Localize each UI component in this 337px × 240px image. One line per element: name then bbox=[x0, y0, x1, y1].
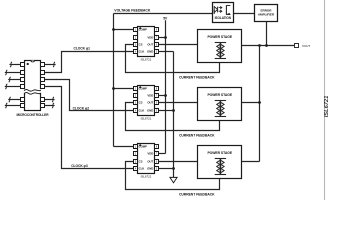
junction voltage feedback / U3 COMP bbox=[112, 87, 115, 90]
svg-text:ISOLATION: ISOLATION bbox=[215, 16, 232, 20]
isolator U3 pin 2 box bbox=[134, 94, 138, 98]
wire U3 GND to ground bus bbox=[159, 110, 174, 112]
svg-text:CLOCK φ3: CLOCK φ3 bbox=[71, 164, 88, 168]
isolator U4 pin 3 box bbox=[134, 160, 138, 164]
wire COMP branch U3 bbox=[114, 88, 134, 90]
svg-text:COMP: COMP bbox=[139, 87, 147, 91]
svg-text:GND: GND bbox=[147, 50, 153, 54]
microcontroller left pin 6 with wire and break mark bbox=[5, 103, 25, 108]
transformer T1 inside power stage bbox=[215, 43, 226, 59]
svg-text:CS: CS bbox=[139, 43, 143, 47]
svg-text:POWER STAGE: POWER STAGE bbox=[207, 93, 232, 97]
svg-text:OUT: OUT bbox=[147, 101, 153, 105]
microcontroller left pin 3 with wire and break mark bbox=[8, 77, 24, 82]
isolator U2 pin 1 box bbox=[134, 28, 138, 32]
wire CLOCK phi1 from microcontroller to U2 CLK bbox=[45, 52, 134, 73]
wire COMP branch U2 bbox=[114, 29, 134, 31]
junction voltage feedback / U2 COMP bbox=[112, 28, 115, 31]
isolator U4 ISL6721 body bbox=[138, 144, 155, 174]
microcontroller right pin box 4 bbox=[41, 85, 45, 89]
microcontroller right pin box 1 bbox=[41, 63, 45, 67]
svg-text:ERROR: ERROR bbox=[261, 8, 273, 12]
power stage PS1 box bbox=[198, 30, 242, 63]
isolator U2 pin 8 box bbox=[155, 28, 159, 32]
isolator U4 pin 7 box bbox=[155, 152, 159, 156]
svg-text:OUT: OUT bbox=[147, 43, 153, 47]
junction output bus / VOUT line bbox=[258, 44, 261, 47]
microcontroller U1 body bbox=[24, 61, 42, 111]
wire U4 VDD to 5V bus bbox=[159, 153, 166, 155]
isolator U3 pin 7 box bbox=[155, 94, 159, 98]
isolation block box bbox=[213, 3, 234, 23]
svg-text:CS: CS bbox=[139, 101, 143, 105]
label ERROR AMPLIFIER bbox=[258, 8, 275, 16]
svg-text:CURRENT FEEDBACK: CURRENT FEEDBACK bbox=[179, 192, 215, 196]
wire COMP branch U4 bbox=[114, 146, 134, 148]
junction ground / U3 GND bbox=[172, 109, 175, 112]
wire U2 CS current feedback bbox=[126, 45, 220, 73]
isolator U2 pin 6 box bbox=[155, 43, 159, 47]
isolator U2 pin-1 dot bbox=[139, 27, 141, 29]
wire CLOCK phi2 from microcontroller to U3 CLK bbox=[45, 80, 134, 111]
microcontroller right pin box 3 bbox=[41, 78, 45, 82]
microcontroller right pin box 6 bbox=[41, 104, 45, 108]
junction output bus / PS2 output bbox=[258, 101, 261, 104]
isolator U2 pin labels bbox=[139, 28, 154, 54]
wire PS3 output to bus bbox=[242, 161, 260, 163]
svg-text:ISL6721: ISL6721 bbox=[141, 175, 152, 179]
isolator U3 pin 1 box bbox=[134, 87, 138, 91]
isolator U2 pin 3 box bbox=[134, 43, 138, 47]
junction 5V / U3 VDD bbox=[164, 94, 167, 97]
isolator U2 pin 5 box bbox=[155, 50, 159, 54]
ground symbol bbox=[170, 177, 177, 182]
svg-text:CURRENT FEEDBACK: CURRENT FEEDBACK bbox=[179, 75, 215, 79]
isolator U3 pin 3 box bbox=[134, 101, 138, 105]
isolator U2 pin 4 box bbox=[134, 50, 138, 54]
wire voltage feedback horizontal to isolation bbox=[114, 13, 213, 15]
isolator U4 pin 5 box bbox=[155, 167, 159, 171]
wire output bus vertical bbox=[259, 46, 261, 162]
svg-text:VOUT: VOUT bbox=[302, 44, 310, 48]
svg-text:ISL6721: ISL6721 bbox=[141, 58, 152, 62]
svg-text:ISL6721: ISL6721 bbox=[324, 96, 330, 118]
wire U2 OUT to power stage input bbox=[159, 44, 198, 46]
svg-text:VDD: VDD bbox=[147, 152, 153, 156]
isolator U2 pin 2 box bbox=[134, 36, 138, 40]
svg-text:GND: GND bbox=[147, 109, 153, 113]
svg-text:OUT: OUT bbox=[147, 160, 153, 164]
svg-text:CLOCK φ2: CLOCK φ2 bbox=[73, 106, 90, 110]
microcontroller right pin 1 stub wire with break mark bbox=[45, 62, 56, 67]
svg-text:VOLTAGE FEEDBACK: VOLTAGE FEEDBACK bbox=[114, 9, 151, 13]
isolator U4 pin 2 box bbox=[134, 152, 138, 156]
svg-text:CLK: CLK bbox=[139, 50, 145, 54]
wire error amplifier output down to VOUT line bbox=[266, 22, 268, 46]
microcontroller right pin 6 stub wire with break mark bbox=[45, 103, 55, 108]
wire voltage feedback vertical bus bbox=[113, 14, 115, 147]
junction error amp wire / VOUT line bbox=[265, 44, 268, 47]
isolator U3 pin labels bbox=[139, 87, 154, 113]
isolator U3 pin-1 dot bbox=[139, 86, 141, 88]
microcontroller left pin 4 with wire and break mark bbox=[5, 84, 25, 89]
transformer T3 inside power stage bbox=[215, 159, 226, 175]
svg-text:AMPLIFIER: AMPLIFIER bbox=[258, 13, 275, 17]
microcontroller left pin 1 with wire and break mark bbox=[10, 62, 25, 67]
isolator U3 pin 4 box bbox=[134, 109, 138, 113]
wire U3 OUT to power stage input bbox=[159, 102, 198, 104]
microcontroller right pin box 5 bbox=[41, 98, 45, 102]
wire U2 GND to ground bus bbox=[159, 51, 174, 53]
svg-text:VDD: VDD bbox=[147, 94, 153, 98]
transformer T2 inside power stage bbox=[215, 101, 226, 117]
wire CLOCK phi3 from microcontroller to U4 CLK bbox=[45, 87, 134, 169]
page border rule bbox=[324, 0, 326, 200]
svg-text:POWER STAGE: POWER STAGE bbox=[207, 35, 232, 39]
isolator U4 pin 6 box bbox=[155, 160, 159, 164]
isolator U4 pin 4 box bbox=[134, 167, 138, 171]
wire U4 OUT to power stage input bbox=[159, 161, 198, 163]
svg-text:VDD: VDD bbox=[147, 36, 153, 40]
wire U3 VDD to 5V bus bbox=[159, 95, 166, 97]
svg-text:POWER STAGE: POWER STAGE bbox=[207, 151, 232, 155]
microcontroller left pin 5 with wire and break mark bbox=[8, 97, 24, 102]
wire U4 GND to ground bus bbox=[159, 168, 174, 170]
svg-text:GND: GND bbox=[147, 167, 153, 171]
power stage PS3 box bbox=[198, 146, 242, 179]
wire U4 CS current feedback bbox=[126, 162, 220, 190]
microcontroller left pin 2 with wire and break mark bbox=[5, 70, 25, 75]
wire PS2 output to bus bbox=[242, 102, 260, 104]
wire isolation output to error amplifier bbox=[234, 13, 255, 15]
microcontroller right pin 5 stub wire with break mark bbox=[45, 97, 55, 102]
svg-text:COMP: COMP bbox=[139, 28, 147, 32]
isolator U2 ISL6721 body bbox=[138, 27, 155, 57]
junction 5V / U2 VDD bbox=[164, 36, 167, 39]
svg-text:ISL6721: ISL6721 bbox=[141, 117, 152, 121]
terminal VOUT bbox=[295, 44, 299, 48]
svg-text:COMP: COMP bbox=[139, 145, 147, 149]
isolator U3 pin 8 box bbox=[155, 87, 159, 91]
svg-text:CLOCK φ1: CLOCK φ1 bbox=[74, 46, 91, 50]
svg-text:MICROCONTROLLER: MICROCONTROLLER bbox=[16, 113, 49, 117]
junction ground / U4 GND bbox=[172, 167, 175, 170]
microcontroller pin-1 dot bbox=[27, 63, 29, 65]
isolator U4 pin 8 box bbox=[155, 145, 159, 149]
wire U2 VDD to 5V bus bbox=[159, 37, 166, 39]
isolator U3 ISL6721 body bbox=[138, 86, 155, 116]
power stage PS2 box bbox=[198, 88, 242, 121]
svg-text:CLK: CLK bbox=[139, 109, 145, 113]
wire U3 CS current feedback bbox=[126, 103, 220, 131]
wire 5V bus vertical bbox=[165, 20, 167, 153]
svg-text:CS: CS bbox=[139, 160, 143, 164]
isolator U2 pin 7 box bbox=[155, 36, 159, 40]
isolator U4 pin 1 box bbox=[134, 145, 138, 149]
svg-text:CLK: CLK bbox=[139, 167, 145, 171]
isolator U3 pin 5 box bbox=[155, 109, 159, 113]
optocoupler symbol inside isolation block bbox=[214, 5, 230, 15]
error amplifier box bbox=[255, 5, 278, 22]
microcontroller right pin box 2 bbox=[41, 71, 45, 75]
wire ground bus vertical bbox=[173, 52, 175, 178]
isolator U3 pin 6 box bbox=[155, 101, 159, 105]
isolator U4 pin-1 dot bbox=[139, 144, 141, 146]
wire PS1 output to VOUT terminal bbox=[242, 45, 295, 47]
svg-text:CURRENT FEEDBACK: CURRENT FEEDBACK bbox=[179, 133, 215, 137]
isolator U4 pin labels bbox=[139, 145, 154, 171]
